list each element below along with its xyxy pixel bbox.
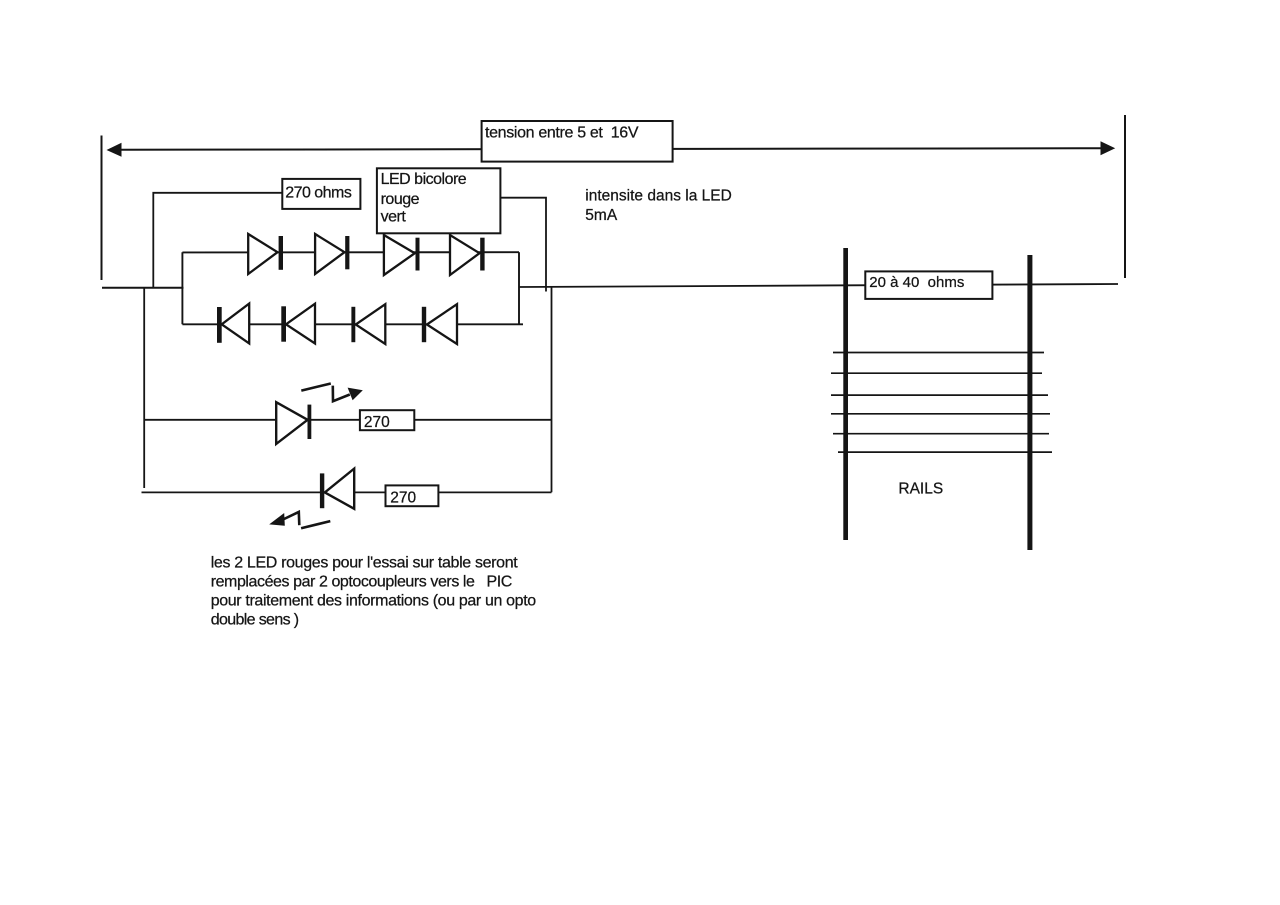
svg-text:5mA: 5mA	[585, 207, 618, 224]
svg-text:270 ohms: 270 ohms	[285, 184, 352, 201]
svg-text:20 à 40 ohms: 20 à 40 ohms	[869, 274, 964, 291]
svg-text:pour traitement des informatio: pour traitement des informations (ou par…	[211, 592, 537, 609]
svg-text:intensite dans la LED: intensite dans la LED	[585, 187, 731, 204]
svg-text:remplacées par 2 optocoupleurs: remplacées par 2 optocoupleurs vers le P…	[211, 573, 512, 590]
svg-text:270: 270	[364, 414, 390, 431]
svg-text:tension entre 5 et 16V: tension entre 5 et 16V	[485, 125, 639, 142]
svg-text:270: 270	[390, 489, 416, 506]
svg-text:LED bicolore: LED bicolore	[381, 171, 467, 188]
svg-text:double sens ): double sens )	[211, 611, 299, 628]
svg-text:RAILS: RAILS	[898, 481, 943, 498]
svg-text:rouge: rouge	[381, 191, 420, 208]
svg-text:les 2 LED rouges pour l'essai: les 2 LED rouges pour l'essai sur table …	[211, 555, 519, 572]
svg-text:vert: vert	[381, 209, 407, 226]
